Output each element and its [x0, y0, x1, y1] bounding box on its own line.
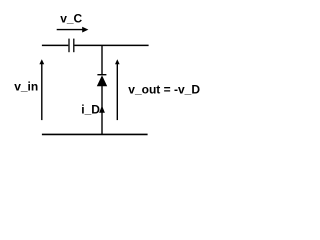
- arrowhead i_D on diode wire (points up): [99, 106, 105, 113]
- diode D (cathode bar + triangle, pointing up): [97, 75, 107, 87]
- wire diode top (cathode lead): [101, 45, 103, 75]
- wire bottom: [42, 133, 148, 135]
- wire diode bottom (anode lead): [101, 86, 103, 134]
- arrow v_in (points up): [39, 59, 44, 120]
- capacitor C right plate: [73, 39, 75, 53]
- wire top-left segment: [42, 44, 68, 46]
- svg-text:i_D: i_D: [81, 103, 100, 117]
- svg-text:v_out = -v_D: v_out = -v_D: [128, 83, 200, 97]
- arrow v_C (points right): [57, 27, 89, 33]
- arrow v_out (points up): [115, 59, 120, 120]
- capacitor C left plate: [68, 39, 70, 53]
- svg-text:v_C: v_C: [60, 11, 82, 25]
- svg-text:v_in: v_in: [14, 79, 38, 93]
- wire top-right segment: [75, 44, 149, 46]
